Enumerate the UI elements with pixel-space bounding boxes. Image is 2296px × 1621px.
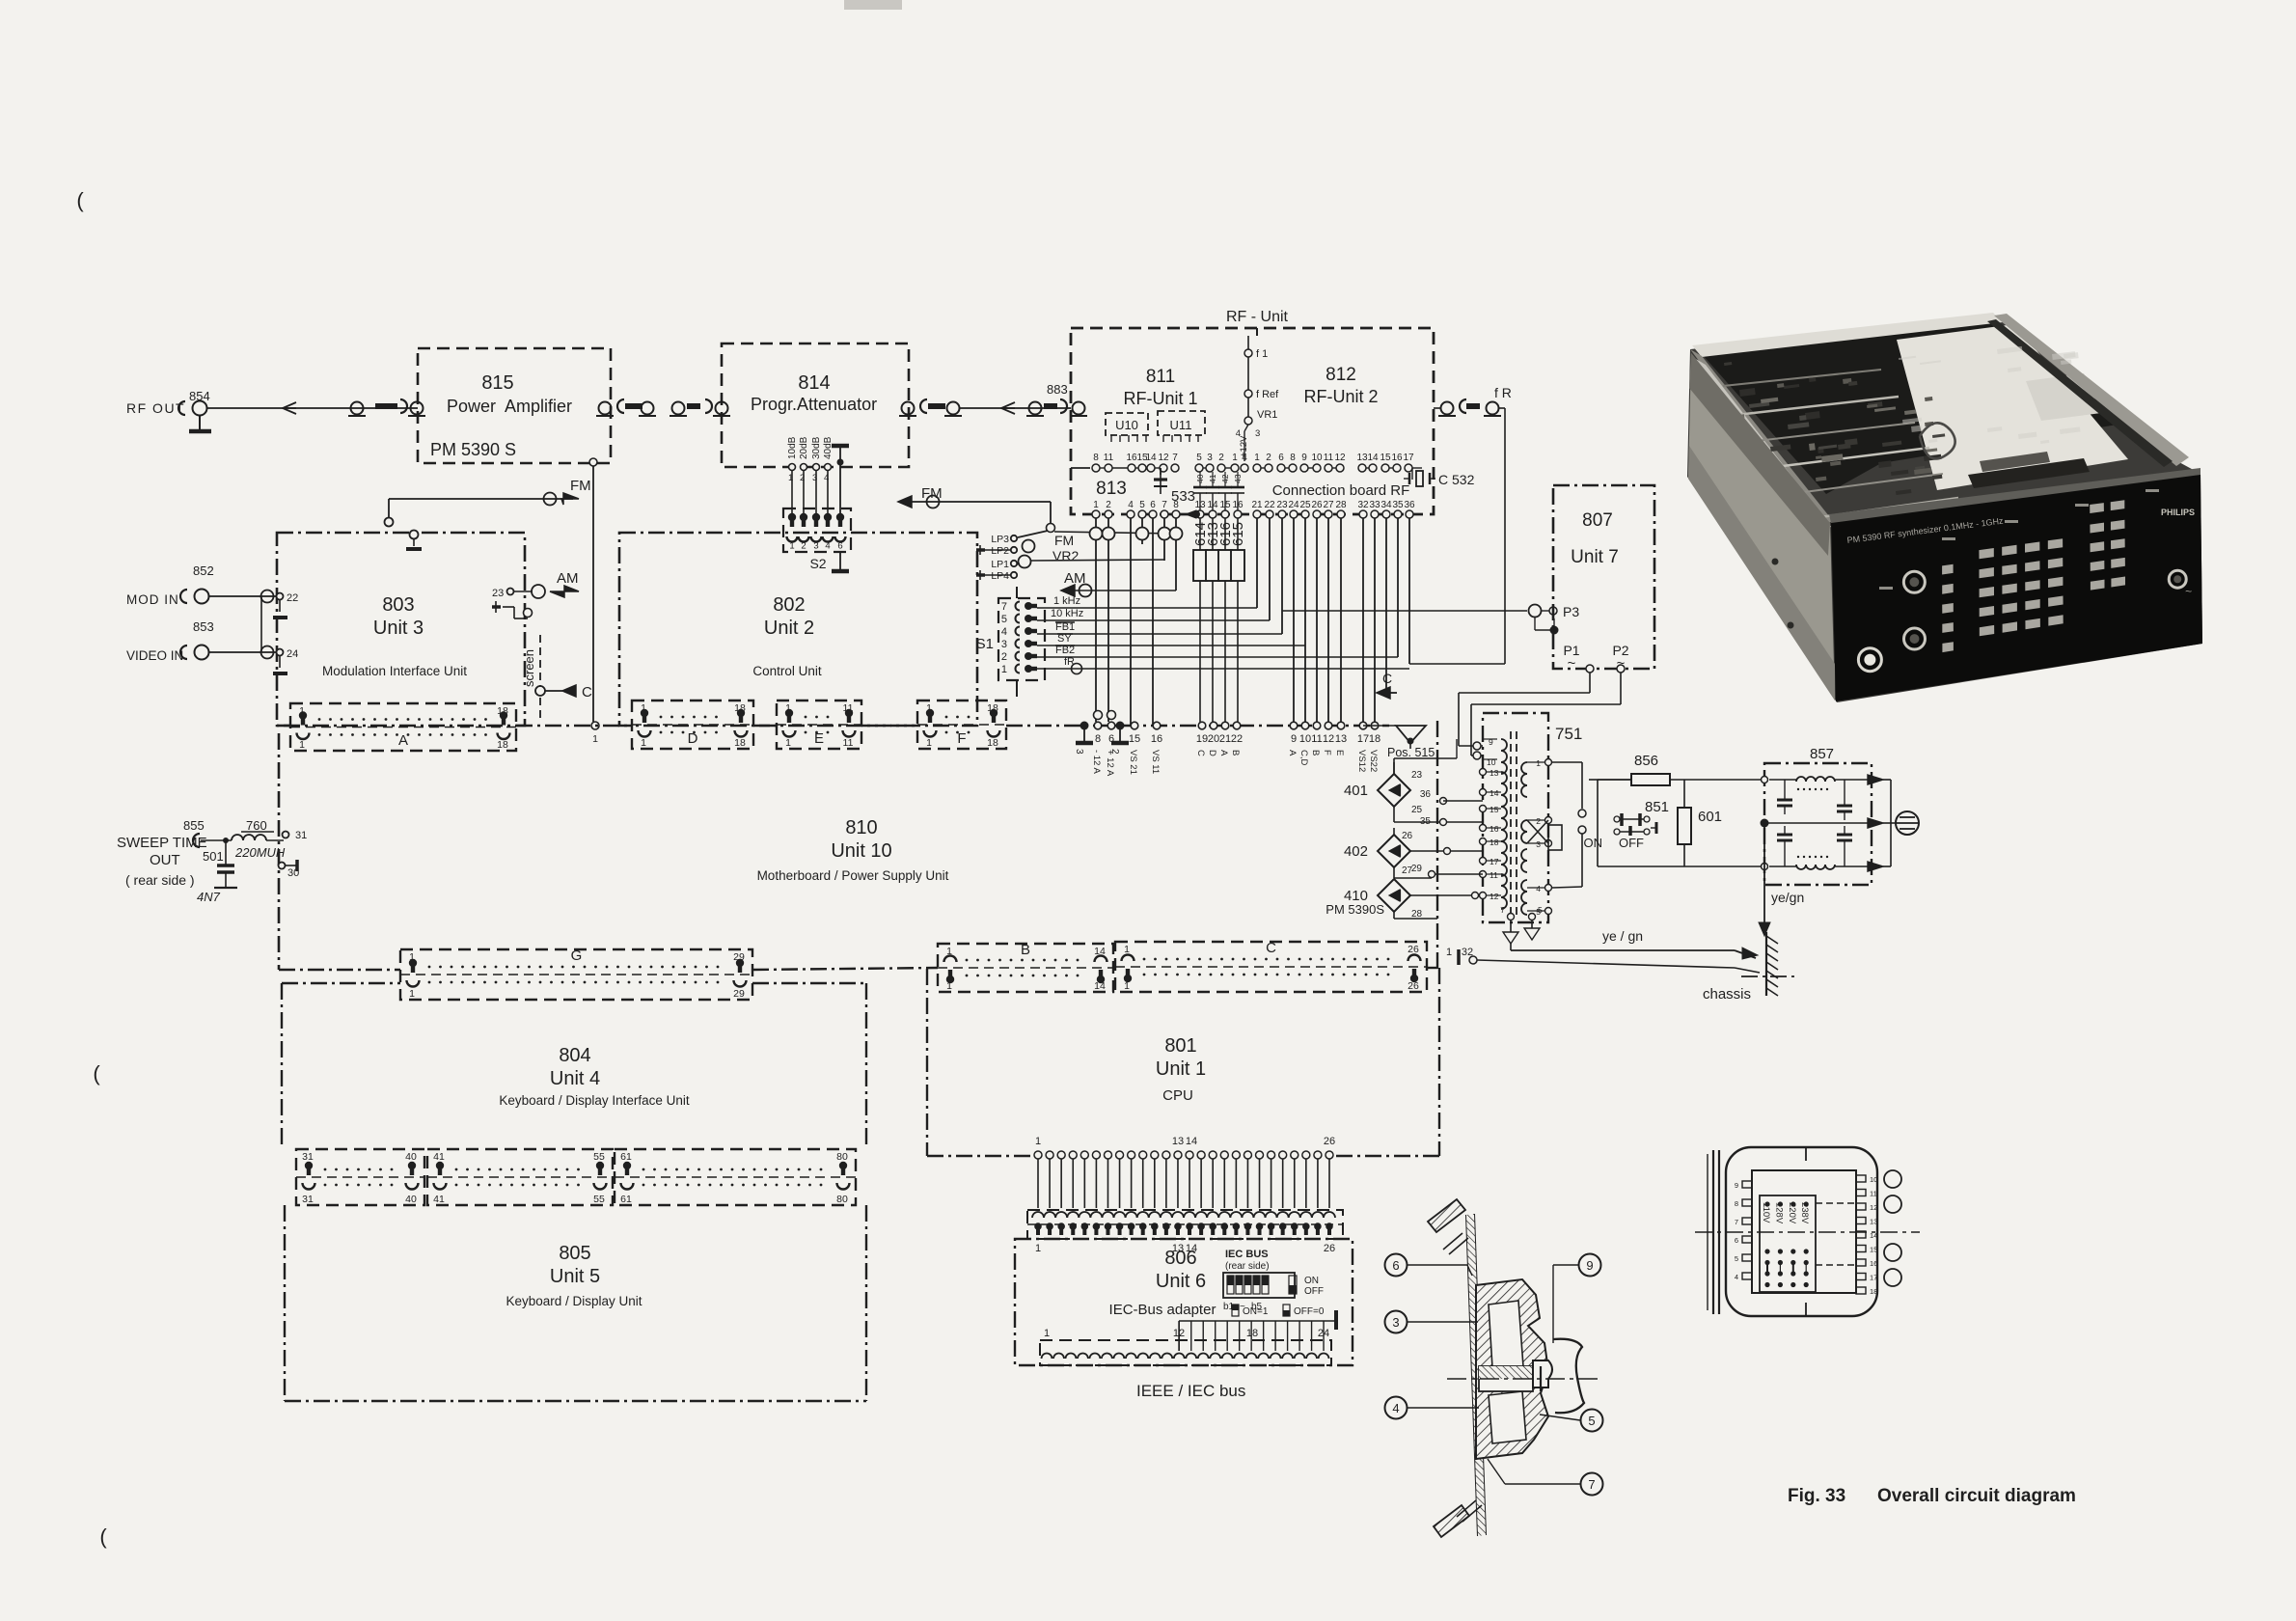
svg-text:OFF=0: OFF=0 <box>1294 1306 1325 1317</box>
svg-text:RF-Unit 2: RF-Unit 2 <box>1303 387 1378 406</box>
svg-text:3: 3 <box>1392 1315 1399 1330</box>
svg-text:41: 41 <box>433 1151 445 1163</box>
svg-text:36: 36 <box>1420 789 1432 800</box>
svg-text:13: 13 <box>1335 733 1347 745</box>
svg-text:18: 18 <box>734 737 746 749</box>
svg-text:f Ref: f Ref <box>1256 389 1279 400</box>
svg-text:OFF: OFF <box>1619 836 1644 850</box>
svg-text:814: 814 <box>798 372 830 394</box>
svg-text:6: 6 <box>1392 1258 1399 1273</box>
svg-text:13: 13 <box>1870 1218 1877 1226</box>
svg-text:Progr.Attenuator: Progr.Attenuator <box>751 395 877 414</box>
svg-text:2: 2 <box>1536 816 1541 826</box>
svg-text:(: ( <box>93 1061 100 1085</box>
svg-text:1: 1 <box>789 541 794 552</box>
svg-text:12: 12 <box>1158 453 1169 463</box>
svg-text:Unit 3: Unit 3 <box>373 618 424 639</box>
svg-text:22: 22 <box>287 592 298 604</box>
svg-text:Fig. 33: Fig. 33 <box>1788 1486 1845 1506</box>
svg-text:4: 4 <box>1735 1273 1738 1281</box>
svg-text:FB1: FB1 <box>1055 621 1075 633</box>
svg-text:760: 760 <box>246 818 267 833</box>
svg-text:f R: f R <box>1494 385 1512 400</box>
svg-text:A: A <box>398 732 408 749</box>
svg-text:5: 5 <box>1196 453 1202 463</box>
svg-text:29: 29 <box>733 951 745 963</box>
svg-text:Unit 5: Unit 5 <box>550 1266 600 1287</box>
svg-text:7: 7 <box>1735 1218 1738 1226</box>
svg-text:9: 9 <box>1735 1181 1738 1190</box>
svg-text:- 12 A: - 12 A <box>1091 750 1102 774</box>
svg-text:VR1: VR1 <box>1257 409 1277 421</box>
svg-text:Unit 7: Unit 7 <box>1571 547 1619 567</box>
svg-text:11: 11 <box>1490 870 1498 880</box>
svg-text:9: 9 <box>1586 1258 1593 1273</box>
svg-text:856: 856 <box>1634 753 1658 769</box>
svg-text:1: 1 <box>592 733 598 745</box>
svg-text:30dB: 30dB <box>811 436 822 459</box>
svg-text:1: 1 <box>946 980 952 992</box>
svg-text:20dB: 20dB <box>799 436 809 459</box>
svg-text:1: 1 <box>1093 500 1099 510</box>
svg-text:14: 14 <box>1490 788 1499 798</box>
svg-text:615: 615 <box>1230 522 1246 546</box>
svg-text:855: 855 <box>183 818 205 833</box>
svg-text:61: 61 <box>620 1151 632 1163</box>
svg-text:1: 1 <box>409 951 415 963</box>
svg-text:35: 35 <box>1420 816 1432 827</box>
svg-text:7: 7 <box>1162 500 1167 510</box>
svg-text:13: 13 <box>1194 500 1206 510</box>
svg-text:31: 31 <box>295 830 307 841</box>
svg-text:220MUH: 220MUH <box>234 845 286 860</box>
svg-text:10: 10 <box>1311 453 1323 463</box>
svg-text:1: 1 <box>299 705 305 717</box>
svg-text:ye/gn: ye/gn <box>1771 890 1804 905</box>
svg-text:15: 15 <box>1380 453 1391 463</box>
svg-text:21: 21 <box>1251 500 1263 510</box>
svg-text:5: 5 <box>1139 500 1145 510</box>
svg-text:C: C <box>1382 671 1392 686</box>
svg-text:G: G <box>571 948 583 964</box>
svg-text:1: 1 <box>785 737 791 749</box>
svg-text:LP4: LP4 <box>991 570 1009 582</box>
svg-text:15: 15 <box>1870 1246 1877 1254</box>
svg-text:80: 80 <box>836 1194 848 1205</box>
svg-text:22: 22 <box>1231 733 1243 745</box>
svg-text:15: 15 <box>1129 733 1140 745</box>
svg-text:C 532: C 532 <box>1438 472 1475 487</box>
svg-text:16: 16 <box>1126 453 1137 463</box>
svg-text:F: F <box>1322 750 1332 756</box>
svg-text:S2: S2 <box>809 556 826 571</box>
svg-text:FM: FM <box>570 478 591 494</box>
svg-text:VS 11: VS 11 <box>1150 750 1161 774</box>
svg-text:23: 23 <box>492 588 504 599</box>
svg-text:1: 1 <box>1536 758 1541 768</box>
svg-text:13: 13 <box>1356 453 1368 463</box>
svg-text:22: 22 <box>1264 500 1275 510</box>
svg-text:A: A <box>1218 750 1229 756</box>
svg-text:Unit 6: Unit 6 <box>1156 1271 1206 1292</box>
svg-text:751: 751 <box>1555 725 1582 743</box>
svg-text:RF OUT: RF OUT <box>126 400 185 416</box>
svg-text:S1: S1 <box>976 636 994 652</box>
svg-text:4: 4 <box>1128 500 1134 510</box>
svg-text:~: ~ <box>2185 585 2192 598</box>
svg-text:4: 4 <box>1001 626 1007 638</box>
svg-text:10: 10 <box>1870 1175 1877 1184</box>
svg-text:26: 26 <box>1324 1243 1335 1254</box>
svg-text:41: 41 <box>433 1194 445 1205</box>
svg-text:16: 16 <box>1151 733 1162 745</box>
svg-text:14: 14 <box>1094 980 1106 992</box>
svg-text:16: 16 <box>1391 453 1403 463</box>
svg-text:Motherboard / Power Supply Uni: Motherboard / Power Supply Unit <box>757 868 949 883</box>
svg-text:2: 2 <box>1218 453 1224 463</box>
svg-text:3: 3 <box>1536 839 1541 849</box>
svg-text:8: 8 <box>1173 500 1179 510</box>
svg-text:2: 2 <box>1266 453 1271 463</box>
svg-text:1: 1 <box>299 739 305 751</box>
svg-text:PM 5390S: PM 5390S <box>1326 902 1384 917</box>
svg-text:C: C <box>1195 750 1206 756</box>
svg-text:IEEE / IEC bus: IEEE / IEC bus <box>1136 1382 1245 1400</box>
svg-text:( rear side ): ( rear side ) <box>125 872 195 888</box>
svg-text:18: 18 <box>1246 1328 1258 1339</box>
svg-text:11: 11 <box>1870 1190 1877 1198</box>
svg-text:P3: P3 <box>1563 604 1579 619</box>
svg-text:17: 17 <box>1403 453 1414 463</box>
svg-text:806: 806 <box>1164 1248 1196 1269</box>
svg-text:~: ~ <box>1568 655 1576 672</box>
svg-text:ON: ON <box>1304 1276 1319 1286</box>
svg-text:PM 5390 S: PM 5390 S <box>430 440 516 459</box>
svg-text:857: 857 <box>1810 746 1834 762</box>
svg-text:16: 16 <box>1490 824 1499 834</box>
svg-text:4: 4 <box>1536 884 1541 893</box>
svg-text:8: 8 <box>1093 453 1099 463</box>
svg-text:19: 19 <box>1196 733 1208 745</box>
svg-text:601: 601 <box>1698 809 1722 825</box>
svg-text:1: 1 <box>1446 947 1452 958</box>
svg-text:813: 813 <box>1096 479 1127 499</box>
svg-text:1: 1 <box>785 702 791 714</box>
svg-text:11: 11 <box>1311 733 1322 745</box>
svg-text:1: 1 <box>946 946 952 957</box>
svg-text:B: B <box>1230 750 1241 756</box>
svg-text:5: 5 <box>1538 905 1543 915</box>
svg-text:851: 851 <box>1645 799 1669 815</box>
svg-text:28: 28 <box>1335 500 1347 510</box>
svg-text:29: 29 <box>733 988 745 1000</box>
svg-text:C: C <box>1266 940 1276 956</box>
svg-text:3: 3 <box>1074 749 1084 755</box>
svg-text:2: 2 <box>1109 749 1120 755</box>
svg-text:Keyboard / Display Unit: Keyboard / Display Unit <box>506 1294 642 1308</box>
svg-text:OFF: OFF <box>1304 1286 1324 1297</box>
svg-text:9: 9 <box>1301 453 1307 463</box>
svg-text:RF - Unit: RF - Unit <box>1226 309 1289 325</box>
svg-text:VS 21: VS 21 <box>1128 750 1138 775</box>
svg-text:1 kHz: 1 kHz <box>1053 595 1080 607</box>
svg-text:14: 14 <box>1367 453 1379 463</box>
svg-text:12: 12 <box>1870 1203 1877 1212</box>
svg-text:3: 3 <box>1001 639 1007 650</box>
svg-text:14: 14 <box>1186 1136 1197 1147</box>
svg-text:1: 1 <box>1001 664 1007 675</box>
svg-text:26: 26 <box>1311 500 1323 510</box>
svg-text:1: 1 <box>1124 980 1130 992</box>
svg-text:PHILIPS: PHILIPS <box>2161 508 2195 517</box>
svg-text:40: 40 <box>405 1151 417 1163</box>
svg-text:33: 33 <box>1369 500 1380 510</box>
svg-text:1: 1 <box>926 737 932 749</box>
svg-text:26: 26 <box>1402 831 1413 841</box>
svg-text:1: 1 <box>926 702 932 714</box>
svg-text:7: 7 <box>1001 601 1007 613</box>
svg-text:807: 807 <box>1582 510 1613 531</box>
svg-text:501: 501 <box>203 849 224 864</box>
svg-text:25: 25 <box>1411 805 1423 815</box>
svg-text:17: 17 <box>1870 1274 1877 1282</box>
svg-text:RF-Unit 1: RF-Unit 1 <box>1123 389 1197 408</box>
svg-text:Unit 2: Unit 2 <box>764 618 814 639</box>
svg-text:Overall circuit diagram: Overall circuit diagram <box>1877 1486 2076 1506</box>
svg-text:VS12: VS12 <box>1356 750 1367 772</box>
svg-text:CPU: CPU <box>1162 1087 1193 1104</box>
svg-text:1: 1 <box>1124 944 1130 955</box>
svg-text:C: C <box>582 684 592 701</box>
svg-text:ON: ON <box>1584 836 1603 850</box>
svg-text:80: 80 <box>836 1151 848 1163</box>
svg-text:803: 803 <box>382 594 414 616</box>
svg-text:40: 40 <box>1195 474 1205 483</box>
svg-text:Keyboard / Display Interface: Keyboard / Display Interface Unit <box>499 1093 690 1108</box>
svg-text:18: 18 <box>987 737 998 749</box>
svg-text:21: 21 <box>1219 733 1231 745</box>
svg-text:D: D <box>688 730 698 747</box>
svg-text:16: 16 <box>1232 500 1244 510</box>
svg-text:B: B <box>1021 942 1030 958</box>
svg-text:VIDEO IN: VIDEO IN <box>126 648 183 663</box>
svg-text:804: 804 <box>559 1045 590 1066</box>
svg-text:ye / gn: ye / gn <box>1602 928 1643 944</box>
svg-text:17: 17 <box>1357 733 1369 745</box>
svg-text:screen: screen <box>522 649 536 687</box>
svg-text:3: 3 <box>1255 428 1260 439</box>
svg-text:5: 5 <box>1735 1254 1738 1263</box>
svg-text:15: 15 <box>1490 805 1499 814</box>
svg-text:Control Unit: Control Unit <box>752 664 822 678</box>
svg-text:18: 18 <box>987 702 998 714</box>
svg-text:26: 26 <box>1324 1136 1335 1147</box>
svg-text:(: ( <box>99 1525 107 1549</box>
svg-text:Unit 4: Unit 4 <box>550 1068 600 1089</box>
svg-text:23: 23 <box>1276 500 1288 510</box>
svg-text:13: 13 <box>1490 768 1499 778</box>
svg-text:ON=1: ON=1 <box>1243 1306 1269 1317</box>
svg-text:10: 10 <box>1299 733 1311 745</box>
svg-text:18: 18 <box>734 702 746 714</box>
svg-text:24: 24 <box>1288 500 1299 510</box>
svg-text:12: 12 <box>1323 733 1334 745</box>
svg-text:810: 810 <box>845 817 877 838</box>
svg-text:26: 26 <box>1408 944 1419 955</box>
svg-text:4: 4 <box>1392 1401 1399 1415</box>
svg-text:3: 3 <box>1207 453 1213 463</box>
svg-text:D: D <box>1207 750 1217 756</box>
svg-text:1: 1 <box>641 737 646 749</box>
svg-text:2: 2 <box>801 541 806 552</box>
svg-text:36: 36 <box>1404 500 1415 510</box>
svg-text:32: 32 <box>1357 500 1369 510</box>
svg-text:853: 853 <box>193 619 214 634</box>
svg-text:14: 14 <box>1094 946 1106 957</box>
svg-text:(: ( <box>76 188 84 212</box>
svg-text:1: 1 <box>409 988 415 1000</box>
svg-text:LP2: LP2 <box>991 545 1009 557</box>
svg-text:14: 14 <box>1207 500 1218 510</box>
svg-text:VS22: VS22 <box>1368 750 1379 772</box>
svg-text:13: 13 <box>1172 1136 1184 1147</box>
svg-text:26: 26 <box>1408 980 1419 992</box>
svg-text:31: 31 <box>302 1194 314 1205</box>
svg-text:6: 6 <box>1150 500 1156 510</box>
svg-text:18: 18 <box>497 739 508 751</box>
svg-text:29: 29 <box>1411 864 1423 874</box>
svg-text:Modulation Interface Unit: Modulation Interface Unit <box>322 664 467 678</box>
svg-text:41: 41 <box>1208 474 1217 483</box>
svg-text:C,D: C,D <box>1298 750 1309 766</box>
svg-text:18: 18 <box>1490 838 1499 847</box>
svg-text:24: 24 <box>287 648 298 660</box>
svg-text:Unit 10: Unit 10 <box>831 840 891 862</box>
svg-text:AM: AM <box>557 570 579 587</box>
svg-text:1: 1 <box>641 702 646 714</box>
svg-text:20: 20 <box>1208 733 1219 745</box>
svg-text:23: 23 <box>1411 770 1423 781</box>
svg-text:43: 43 <box>1233 474 1243 483</box>
svg-text:8: 8 <box>1735 1199 1738 1208</box>
svg-text:4N7: 4N7 <box>197 890 221 904</box>
svg-text:LP3: LP3 <box>991 534 1009 545</box>
svg-text:11: 11 <box>843 737 854 749</box>
svg-text:2: 2 <box>1001 651 1007 663</box>
svg-text:10 kHz: 10 kHz <box>1051 608 1083 619</box>
svg-text:MOD IN: MOD IN <box>126 592 179 607</box>
svg-text:31: 31 <box>302 1151 314 1163</box>
svg-text:1: 1 <box>1035 1243 1041 1254</box>
svg-text:14: 14 <box>1145 453 1157 463</box>
svg-text:12: 12 <box>1490 892 1499 901</box>
svg-text:401: 401 <box>1344 783 1368 799</box>
svg-text:852: 852 <box>193 563 214 578</box>
svg-text:5: 5 <box>1001 614 1007 625</box>
svg-text:9: 9 <box>1291 733 1297 745</box>
svg-text:A: A <box>1287 750 1298 756</box>
svg-text:FM: FM <box>1054 533 1074 548</box>
svg-text:11: 11 <box>1104 453 1114 463</box>
svg-text:16: 16 <box>1870 1259 1877 1268</box>
svg-text:11: 11 <box>843 702 854 714</box>
svg-text:1: 1 <box>1035 1136 1041 1147</box>
svg-text:811: 811 <box>1146 367 1175 387</box>
svg-text:Unit 1: Unit 1 <box>1156 1058 1206 1080</box>
svg-text:2: 2 <box>1106 500 1111 510</box>
svg-text:18: 18 <box>497 705 508 717</box>
svg-text:Power: Power <box>447 397 496 416</box>
svg-text:801: 801 <box>1164 1035 1196 1057</box>
svg-text:802: 802 <box>773 594 805 616</box>
svg-text:12: 12 <box>1334 453 1346 463</box>
svg-text:Connection board RF: Connection board RF <box>1272 482 1410 499</box>
svg-text:IEC-Bus adapter: IEC-Bus adapter <box>1109 1302 1216 1318</box>
svg-text:40: 40 <box>405 1194 417 1205</box>
svg-text:18: 18 <box>1369 733 1380 745</box>
svg-text:B: B <box>1310 750 1321 756</box>
svg-text:Amplifier: Amplifier <box>505 397 572 416</box>
svg-text:f 1: f 1 <box>1256 348 1268 360</box>
svg-text:6: 6 <box>837 541 842 552</box>
svg-text:815: 815 <box>481 372 513 394</box>
svg-text:812: 812 <box>1326 365 1356 385</box>
svg-text:27: 27 <box>1323 500 1334 510</box>
svg-text:IEC BUS: IEC BUS <box>1225 1249 1269 1260</box>
svg-text:3: 3 <box>813 541 818 552</box>
svg-text:11: 11 <box>1324 453 1334 463</box>
svg-text:U10: U10 <box>1115 418 1138 432</box>
svg-text:18: 18 <box>1870 1287 1877 1296</box>
svg-text:Pos. 515: Pos. 515 <box>1387 746 1435 759</box>
svg-text:15: 15 <box>1219 500 1231 510</box>
svg-text:883: 883 <box>1047 382 1068 397</box>
svg-text:U11: U11 <box>1170 418 1192 432</box>
svg-text:25: 25 <box>1299 500 1311 510</box>
svg-text:61: 61 <box>620 1194 632 1205</box>
svg-text:35: 35 <box>1392 500 1404 510</box>
svg-text:chassis: chassis <box>1703 986 1751 1003</box>
svg-text:42: 42 <box>1220 474 1230 483</box>
svg-text:17: 17 <box>1490 857 1499 866</box>
svg-text:OUT: OUT <box>150 852 180 868</box>
svg-text:6: 6 <box>1735 1236 1738 1245</box>
svg-text:E: E <box>1334 750 1345 756</box>
svg-text:8: 8 <box>1095 733 1101 745</box>
svg-text:5: 5 <box>1588 1414 1595 1428</box>
svg-text:4: 4 <box>825 541 830 552</box>
svg-text:LP1: LP1 <box>991 559 1009 570</box>
svg-text:7: 7 <box>1500 905 1505 915</box>
svg-text:805: 805 <box>559 1243 590 1264</box>
svg-text:F: F <box>957 730 966 747</box>
svg-text:7: 7 <box>1172 453 1178 463</box>
svg-text:34: 34 <box>1380 500 1392 510</box>
svg-text:1: 1 <box>1232 453 1238 463</box>
svg-text:4: 4 <box>1242 453 1247 463</box>
svg-text:10dB: 10dB <box>787 436 798 459</box>
svg-text:1: 1 <box>1044 1328 1050 1339</box>
svg-text:402: 402 <box>1344 843 1368 860</box>
svg-text:1: 1 <box>1254 453 1260 463</box>
svg-text:55: 55 <box>593 1194 605 1205</box>
svg-text:55: 55 <box>593 1151 605 1163</box>
svg-text:8: 8 <box>1290 453 1296 463</box>
svg-text:6: 6 <box>1278 453 1284 463</box>
svg-text:(rear side): (rear side) <box>1225 1261 1270 1272</box>
svg-text:7: 7 <box>1588 1477 1595 1492</box>
